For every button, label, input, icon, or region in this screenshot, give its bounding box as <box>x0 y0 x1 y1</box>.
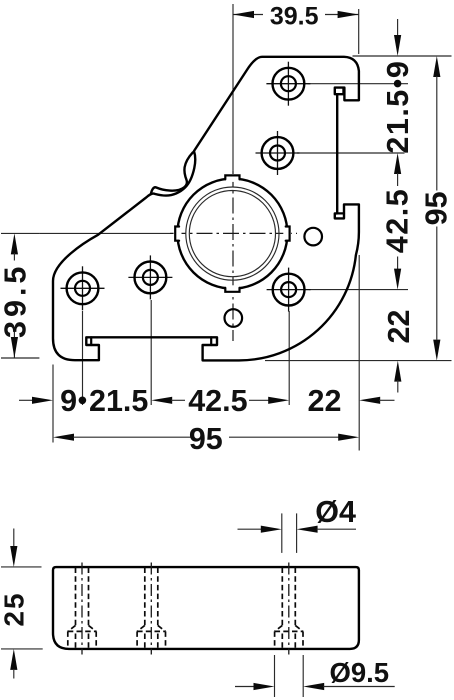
svg-text:22: 22 <box>382 310 416 344</box>
svg-text:22: 22 <box>308 384 342 418</box>
svg-text:39.5: 39.5 <box>270 2 319 30</box>
svg-text:95: 95 <box>189 422 223 456</box>
svg-text:21.5: 21.5 <box>89 384 148 418</box>
svg-text:42.5: 42.5 <box>381 188 415 253</box>
svg-text:95: 95 <box>419 191 453 225</box>
svg-text:Ø4: Ø4 <box>315 495 356 529</box>
svg-text:42.5: 42.5 <box>188 384 247 418</box>
svg-text:39.5: 39.5 <box>0 263 33 338</box>
svg-text:9: 9 <box>381 61 415 78</box>
svg-text:25: 25 <box>0 591 29 626</box>
svg-text:Ø9.5: Ø9.5 <box>329 657 389 688</box>
svg-text:21.5: 21.5 <box>381 88 415 153</box>
svg-text:9: 9 <box>60 384 77 418</box>
